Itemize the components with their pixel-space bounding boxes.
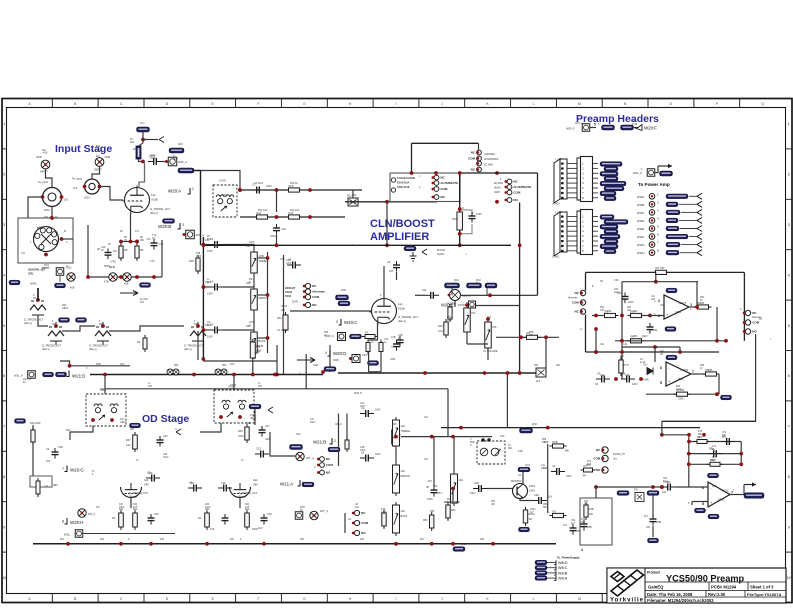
- svg-text:J16: J16: [64, 198, 69, 202]
- label tex 19: [480, 538, 485, 541]
- wire C27 loop bottom: [460, 224, 472, 234]
- net flag header2 pin5: [600, 234, 620, 239]
- net flag header1 pin7: [600, 191, 616, 196]
- capacitor C21 rowA: [251, 183, 265, 194]
- svg-text:2P: 2P: [97, 247, 100, 251]
- svg-text:#26: #26: [360, 538, 365, 541]
- junction cl pot top: [465, 303, 469, 307]
- junction extra 26: [660, 485, 664, 489]
- label pair 62a: [207, 236, 210, 238]
- svg-text:GBLD: GBLD: [335, 423, 342, 426]
- label Volume rot2: [348, 518, 352, 521]
- junction extra 5: [495, 200, 499, 204]
- pin bracket W21:D: [64, 371, 69, 377]
- switch vol NO: [352, 530, 366, 535]
- switch vol COM: [352, 520, 369, 525]
- wire center long drop: [519, 292, 521, 373]
- pin bracket W20:C: [336, 319, 341, 325]
- label X5A: [100, 388, 105, 392]
- resistor R63 low: [628, 335, 645, 343]
- label pair 78a: [140, 123, 145, 125]
- svg-text:C26: C26: [281, 227, 286, 231]
- svg-text:W2_A: W2_A: [88, 512, 95, 516]
- wire W30B to fork: [679, 203, 697, 205]
- wire to V2 grid: [290, 310, 372, 312]
- net flag header2 pin2: [604, 220, 628, 225]
- label W26_A od: [64, 533, 71, 537]
- resistor R5B cl: [524, 331, 541, 339]
- label BRIGHT: [285, 286, 296, 290]
- label tex 41: [759, 318, 762, 321]
- pin number W30C: [657, 208, 659, 212]
- net flag OD gnd mid: [130, 423, 141, 428]
- svg-text:R70: R70: [698, 431, 703, 433]
- br left box: [580, 498, 612, 545]
- net flag ps W8:A: [535, 576, 547, 580]
- svg-text:X7A8: X7A8: [230, 384, 237, 387]
- svg-text:1M: 1M: [52, 324, 55, 326]
- junction extra 24: [394, 435, 398, 439]
- svg-text:C4B: C4B: [398, 335, 403, 337]
- wire relay down: [506, 373, 508, 418]
- triode sideways V3a: [30, 296, 46, 319]
- svg-text:GainEQ: GainEQ: [648, 585, 664, 590]
- svg-text:C48: C48: [221, 482, 226, 485]
- resistor R50 mid: [430, 512, 434, 531]
- label tex 39: [654, 313, 656, 316]
- wire relay row: [441, 427, 700, 429]
- label pair 21b: [508, 448, 513, 450]
- label V2aB: [398, 307, 405, 311]
- junction cl pot top2: [486, 317, 490, 321]
- label 10V br: [646, 526, 651, 529]
- svg-text:NO: NO: [752, 330, 757, 334]
- svg-text:(Rev.y): (Rev.y): [89, 348, 97, 351]
- resistor R26 mid: [457, 209, 463, 233]
- svg-text:R66: R66: [676, 386, 681, 388]
- svg-text:360/GRN_NO: 360/GRN_NO: [28, 268, 45, 272]
- wire bank left rail: [88, 225, 162, 277]
- svg-text:R3x: R3x: [277, 316, 282, 320]
- svg-text:R45: R45: [246, 422, 251, 425]
- svg-text:R5A: R5A: [447, 316, 452, 319]
- label value 59: [205, 508, 210, 511]
- net flag W30H: [666, 250, 679, 255]
- label pair 7a: [120, 363, 125, 366]
- svg-text:E: E: [212, 597, 214, 601]
- svg-text:W20_F: W20_F: [566, 127, 575, 131]
- svg-text:MD: MD: [257, 351, 261, 354]
- label tex 44: [500, 435, 505, 438]
- label value 46: [633, 310, 638, 313]
- svg-text:100V: 100V: [628, 301, 634, 304]
- resistor R64 out: [695, 301, 712, 309]
- capacitor C64: [647, 323, 654, 334]
- rotary switch box: [18, 218, 73, 263]
- svg-text:J_A01: J_A01: [555, 211, 562, 214]
- capacitor C od series2: [188, 481, 202, 492]
- svg-text:Input Stage: Input Stage: [55, 143, 112, 155]
- capacitor C56 brbox: [581, 520, 588, 531]
- ground symbol cln left: [410, 252, 417, 261]
- svg-text:C48: C48: [474, 481, 479, 485]
- svg-text:(Rev.y): (Rev.y): [184, 348, 192, 351]
- net flag W30E: [666, 226, 679, 231]
- resistor R74 brbox: [584, 502, 588, 520]
- label tex 5: [299, 372, 301, 375]
- gnd jack bank b: [123, 273, 131, 281]
- svg-text:U5A: U5A: [660, 304, 665, 307]
- junction jack2 left: [83, 185, 87, 189]
- wire W20F chain 1: [590, 127, 596, 129]
- label rev od1: [129, 496, 137, 499]
- label tex 2: [466, 253, 468, 256]
- pin number W30F: [657, 233, 659, 237]
- svg-text:C54: C54: [666, 481, 671, 484]
- svg-text:100V: 100V: [222, 194, 228, 197]
- label 100V lad3: [207, 336, 213, 339]
- junction extra 13: [594, 314, 598, 318]
- svg-text:CL GAIN: CL GAIN: [277, 328, 287, 332]
- label C63: [617, 292, 622, 295]
- junction extra 12: [546, 426, 550, 430]
- label X7A8 od: [228, 385, 235, 389]
- switch oaR COM: [743, 320, 760, 325]
- wire br plus drop: [691, 502, 693, 506]
- svg-text:63V: 63V: [258, 386, 263, 388]
- label triode V3a: [24, 319, 44, 322]
- label 100V c45b: [632, 383, 638, 386]
- wire R2 to NC pin: [143, 139, 158, 141]
- wire block A to C: [460, 172, 538, 174]
- wire oa in seg: [592, 315, 604, 317]
- junction extra 19: [202, 285, 206, 289]
- svg-text:1K: 1K: [700, 368, 703, 370]
- label pair 86a: [487, 316, 492, 319]
- label ROCKT LEVEL: [458, 304, 476, 307]
- svg-text:VCC: VCC: [525, 464, 530, 467]
- label tex 11: [222, 364, 227, 367]
- wire ladder left rail: [202, 237, 204, 359]
- junction br fb 4: [739, 462, 743, 466]
- wire bank top link: [121, 241, 137, 243]
- label pair 56b: [542, 442, 547, 444]
- label value 28: [598, 123, 600, 126]
- label pair 75a: [44, 265, 50, 267]
- svg-text:W20:D: W20:D: [333, 351, 346, 356]
- svg-text:W26_: W26_: [64, 533, 71, 537]
- svg-text:6301: 6301: [84, 196, 90, 200]
- resistor R62: [628, 309, 645, 317]
- label value 17: [246, 282, 251, 285]
- junction extra 23: [129, 240, 133, 244]
- wire W30A to fork: [689, 195, 697, 197]
- svg-text:GLD: GLD: [109, 265, 115, 269]
- svg-text:100V: 100V: [632, 383, 638, 386]
- wire sw to resistor bank: [62, 238, 74, 240]
- svg-text:R5x: R5x: [534, 364, 539, 367]
- connector pin W20_F: [582, 124, 590, 132]
- pin bracket W21:A: [298, 480, 305, 486]
- wire br small drop: [652, 496, 654, 518]
- capacitor C49 q3: [533, 493, 547, 504]
- fork W30C: [697, 209, 702, 215]
- connector pin 360 a: [56, 268, 64, 276]
- svg-text:C47: C47: [190, 482, 195, 485]
- label pair 84b: [476, 283, 478, 285]
- resistor R51 mid2: [446, 502, 450, 521]
- label value 10: [290, 182, 298, 185]
- wire pots common: [253, 273, 255, 286]
- label R304: [529, 513, 536, 516]
- label pair 12b: [120, 422, 127, 424]
- svg-text:COM: COM: [312, 295, 320, 299]
- resistor R304 q3: [523, 507, 527, 526]
- label value 49: [708, 369, 713, 372]
- wire oa fb right drop: [696, 282, 698, 307]
- label triode V4b: [184, 345, 204, 348]
- net flag below 360: [55, 283, 66, 288]
- svg-text:2R2: 2R2: [587, 464, 592, 466]
- label pair 9a: [230, 364, 235, 366]
- label value 54: [710, 459, 715, 462]
- capacitor C50 right: [570, 524, 577, 535]
- label pair 46a: [92, 471, 95, 473]
- relay dashed box: [477, 441, 505, 464]
- svg-text:100: 100: [662, 491, 667, 494]
- wire c54 stem: [433, 437, 435, 486]
- svg-text:SNA3: SNA3: [494, 187, 501, 190]
- label pair 11a: [23, 378, 31, 381]
- svg-text:R41: R41: [451, 509, 456, 512]
- junction extra 8: [103, 373, 107, 377]
- svg-text:W8:A: W8:A: [558, 577, 568, 581]
- switch B COM: [468, 156, 481, 161]
- svg-text:(Rev.y): (Rev.y): [238, 496, 246, 499]
- svg-text:B: B: [74, 102, 76, 106]
- label V2OS: [447, 302, 456, 306]
- label ALTERNATE B: [484, 158, 499, 161]
- label triode V4a: [89, 345, 109, 348]
- net flag header1 pin4: [604, 176, 618, 181]
- label pair 26b: [600, 310, 605, 312]
- label TREBLE: [259, 259, 269, 263]
- label pair 81a: [96, 156, 101, 158]
- wire tube cathode to bank: [130, 215, 132, 242]
- label C50: [576, 530, 581, 533]
- wire q3 emitter: [520, 499, 533, 501]
- svg-text:C47: C47: [265, 425, 270, 428]
- svg-text:R*47: R*47: [624, 364, 630, 367]
- label pair 3b: [194, 324, 199, 326]
- label C46 od: [267, 513, 272, 516]
- label X7A8: [219, 179, 226, 183]
- label pair 0b: [33, 298, 36, 300]
- pin bracket ps W8:A: [554, 576, 568, 581]
- jack NOR input 2: [95, 158, 104, 167]
- label pair 37a: [712, 457, 717, 459]
- label 10V odb: [258, 527, 263, 530]
- svg-text:4: 4: [581, 548, 583, 552]
- switch B ALT: [476, 161, 481, 166]
- label value 45: [607, 310, 612, 313]
- wire mid horiz: [401, 436, 492, 438]
- net flag triode b: [76, 318, 87, 323]
- label pair 60a: [324, 332, 329, 334]
- junction lad 2: [202, 285, 206, 289]
- label pair 42b: [119, 507, 125, 509]
- svg-text:L: L: [533, 597, 535, 601]
- wire oa left rail: [585, 272, 587, 290]
- pin number W30H: [657, 249, 659, 253]
- junction X5A b: [110, 418, 114, 422]
- jack odm: [296, 452, 304, 460]
- junction od rail 5: [262, 542, 266, 546]
- svg-text:1M: 1M: [660, 354, 663, 356]
- capacitor C31 left: [393, 261, 400, 272]
- svg-text:10: 10: [787, 576, 791, 580]
- label R5A: [438, 325, 443, 328]
- label pair 5b: [140, 302, 145, 304]
- pin bracket W20:H: [62, 518, 67, 524]
- gnd jack bank a: [109, 273, 117, 281]
- label 414B: [643, 379, 649, 382]
- resistor R6 bank: [135, 243, 144, 261]
- svg-text:8: 8: [62, 520, 64, 524]
- wire oa right rail: [743, 272, 745, 340]
- svg-text:R50: R50: [430, 510, 435, 513]
- net flag bus right: [324, 367, 336, 372]
- switch vol NC: [352, 510, 366, 515]
- capacitor C od b3: [261, 514, 268, 525]
- wire odr rail2: [346, 414, 348, 441]
- label tex 0: [437, 249, 446, 252]
- svg-text:COM: COM: [513, 191, 521, 195]
- net flag header1 pin3: [600, 172, 618, 177]
- label triode V3a rev: [24, 322, 32, 325]
- label tex 28: [390, 358, 396, 361]
- junction sw pin bottom: [44, 253, 48, 257]
- wire swB left: [411, 143, 413, 173]
- label pair 69b: [286, 263, 292, 265]
- capacitor C od series3: [218, 485, 232, 492]
- label R74: [589, 508, 594, 511]
- net flag cl a: [445, 283, 460, 288]
- capacitor C odr1: [360, 406, 374, 417]
- junction lad 3: [202, 328, 206, 332]
- svg-text:Alternate: Alternate: [568, 297, 578, 300]
- capacitor C7a: [151, 239, 164, 250]
- label C4B: [391, 336, 396, 339]
- svg-text:4: 4: [3, 273, 5, 277]
- capacitor C od b2: [222, 514, 229, 525]
- label 100V odr2: [375, 453, 381, 456]
- label Contest rot: [740, 308, 742, 311]
- diode D1 mid: [647, 368, 653, 375]
- svg-text:C2 100V: C2 100V: [254, 182, 264, 185]
- label pair 67b: [249, 325, 251, 327]
- label tex 18: [420, 538, 425, 541]
- wire pot to rowA: [352, 190, 354, 198]
- wire W31 up arrow: [655, 166, 658, 173]
- label value 26: [419, 186, 421, 189]
- fork od a: [176, 429, 181, 435]
- svg-text:COM: COM: [468, 157, 476, 161]
- label 100V lad2: [207, 293, 213, 296]
- junction RC top: [458, 207, 462, 211]
- pin number W30D: [657, 216, 659, 220]
- junction bus mid 1: [192, 373, 196, 377]
- label W21:A: [280, 482, 293, 487]
- svg-text:R6: R6: [656, 266, 660, 270]
- junction bus mid 3: [321, 370, 325, 374]
- svg-text:R21 33K: R21 33K: [258, 209, 268, 212]
- label #16 1: [43, 151, 48, 155]
- junction bus mid 2: [273, 373, 277, 377]
- svg-text:1: 1: [3, 122, 5, 126]
- label pair 14a: [163, 454, 168, 456]
- net flag triode a: [59, 318, 70, 323]
- wire mid row drop: [386, 202, 388, 246]
- wire input to block: [194, 171, 201, 246]
- svg-text:5: 5: [788, 324, 790, 328]
- junction oa fb: [654, 280, 658, 284]
- label C48: [46, 448, 50, 451]
- svg-text:W2*_A: W2*_A: [320, 509, 328, 513]
- svg-text:100K: 100K: [205, 507, 211, 509]
- label W30H: [637, 251, 645, 255]
- label tex 26: [335, 423, 342, 426]
- resistor R48 od: [382, 510, 386, 529]
- label value 43: [625, 374, 630, 377]
- label pair 27a: [627, 307, 632, 309]
- capacitor C27 mid: [469, 212, 476, 223]
- wire C27 loop top: [460, 210, 472, 215]
- svg-text:1: 1: [788, 122, 790, 126]
- label GLD: [109, 265, 115, 269]
- svg-text:R51: R51: [447, 499, 452, 501]
- label tex 22: [175, 428, 178, 431]
- svg-text:GBLD: GBLD: [62, 308, 69, 310]
- svg-text:10A: 10A: [459, 479, 464, 482]
- svg-text:W8:C: W8:C: [558, 566, 568, 570]
- junction extra 21: [50, 216, 54, 220]
- pin bracket W20:B: [178, 223, 185, 229]
- wire bright rail: [283, 255, 285, 375]
- junction A bottom: [458, 243, 462, 247]
- svg-text:1K5: 1K5: [133, 507, 138, 509]
- title GainEQ: [648, 585, 664, 590]
- pin open NC: [159, 137, 164, 143]
- op-amp U5B: [702, 482, 733, 507]
- label pair 36b: [712, 449, 715, 451]
- svg-text:1GA: 1GA: [438, 330, 443, 333]
- label BASS: [259, 339, 266, 343]
- junction extra 11: [459, 426, 463, 430]
- svg-text:W_BCF: W_BCF: [140, 299, 149, 301]
- wire C block drop: [519, 203, 521, 293]
- svg-text:(Rev.y): (Rev.y): [398, 319, 406, 323]
- wire oab fb top: [622, 346, 680, 348]
- svg-text:3448 3448: 3448 3448: [397, 185, 410, 189]
- switch A NO: [432, 195, 446, 200]
- wire oa fb drop2: [655, 272, 657, 281]
- svg-text:9: 9: [788, 525, 790, 529]
- label pair 1b: [52, 324, 55, 326]
- junction X7A8 out: [238, 188, 242, 192]
- wire V3b-V4a: [62, 326, 95, 331]
- svg-text:4P: 4P: [426, 486, 429, 489]
